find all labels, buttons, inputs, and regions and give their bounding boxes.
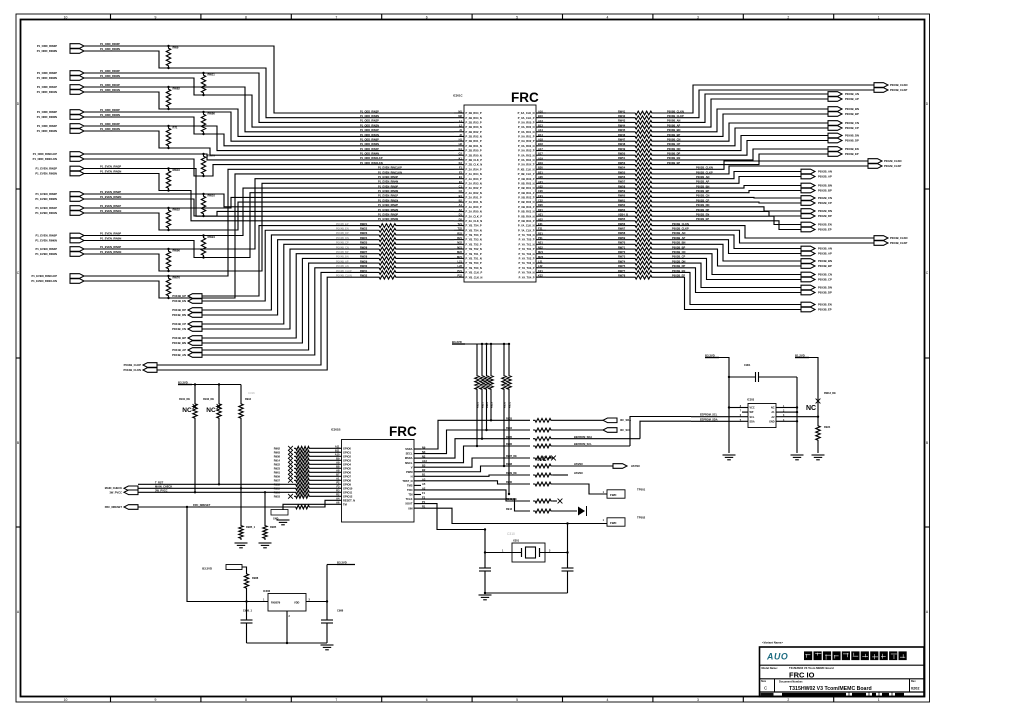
- svg-text:P_2A_RX3_P: P_2A_RX3_P: [466, 177, 482, 181]
- svg-text:<Variant Name>: <Variant Name>: [762, 641, 783, 645]
- wire: [546, 234, 633, 236]
- svg-text:P_YB_TX2_P: P_YB_TX2_P: [466, 242, 482, 246]
- wire: [421, 466, 530, 472]
- svg-text:P_YB_TX1_P: P_YB_TX1_P: [466, 252, 482, 256]
- svg-text:P0X3B_CN: P0X3B_CN: [818, 272, 832, 276]
- resistor RW75: [633, 266, 654, 270]
- resistor R916: [294, 490, 311, 494]
- resistor RW27: [377, 252, 398, 256]
- svg-text:P0X2B_EN: P0X2B_EN: [818, 222, 832, 226]
- svg-text:SDA: SDA: [750, 420, 755, 423]
- border zone row letters: [16, 102, 930, 614]
- svg-text:A8: A8: [336, 469, 340, 473]
- wire P1_ODD_RIN1P: [84, 87, 454, 132]
- svg-text:R994: R994: [245, 398, 252, 401]
- label P0X0B_DN/P0X0B_DP: [845, 133, 859, 142]
- resistor RW47: [633, 139, 654, 143]
- svg-text:F21: F21: [538, 227, 543, 231]
- wire P1_EVEN_RIN4P: [84, 179, 454, 249]
- svg-text:P_2A_RX0_N: P_2A_RX0_N: [466, 210, 482, 214]
- svg-text:P1_EVEN_RIN2N: P1_EVEN_RIN2N: [35, 197, 57, 201]
- svg-text:P_YB_TX2_N: P_YB_TX2_N: [466, 247, 482, 251]
- svg-text:P1_ODD_RIN1N: P1_ODD_RIN1N: [360, 134, 379, 137]
- svg-text:RW63: RW63: [618, 208, 626, 212]
- svg-text:10: 10: [64, 698, 68, 702]
- wire: [654, 235, 801, 249]
- svg-text:RW41: RW41: [618, 109, 626, 113]
- svg-text:D20: D20: [538, 203, 543, 207]
- svg-text:X301: X301: [513, 539, 520, 543]
- wire: [553, 484, 607, 494]
- svg-text:P0X3B_EN: P0X3B_EN: [818, 302, 832, 306]
- svg-text:P21: P21: [457, 269, 462, 273]
- svg-text:R3: R3: [336, 489, 340, 493]
- junction: [508, 343, 510, 345]
- test point TP501: [607, 490, 625, 498]
- svg-text:MAIN_CHECK: MAIN_CHECK: [105, 486, 122, 490]
- svg-text:P_YA_TX2_P: P_YA_TX2_P: [519, 256, 535, 260]
- svg-text:H: H: [411, 474, 413, 478]
- label P1_ODD_RIN0P/P1_ODD_RIN0N: [37, 110, 58, 119]
- svg-text:8: 8: [245, 698, 247, 702]
- wire: [817, 395, 819, 424]
- svg-text:P_YA_TX4_N: P_YA_TX4_N: [518, 271, 534, 275]
- junction: [503, 465, 505, 467]
- svg-text:P1_ODD_RINCLKN: P1_ODD_RINCLKN: [360, 162, 383, 165]
- junction: [326, 600, 328, 602]
- svg-text:TMS: TMS: [407, 484, 413, 488]
- resistor RW32: [377, 275, 398, 279]
- EEPROM pins: [740, 406, 785, 423]
- svg-text:P0X2B_AP: P0X2B_AP: [818, 175, 832, 179]
- svg-text:P0X3B_BP: P0X3B_BP: [818, 264, 832, 268]
- svg-text:9: 9: [155, 698, 157, 702]
- svg-text:NC: NC: [771, 407, 775, 410]
- wire: [553, 445, 630, 447]
- svg-text:P1_ODD_RIN3N: P1_ODD_RIN3N: [37, 49, 57, 53]
- svg-text:GPIO0: GPIO0: [343, 446, 351, 450]
- junction FRC_NRESET: [186, 506, 188, 508]
- wire: [546, 117, 633, 119]
- label P0X3B_BN/P0X3B_BP: [818, 259, 832, 268]
- wire: [654, 211, 801, 216]
- svg-text:R953: R953: [274, 494, 281, 498]
- svg-text:P0X2B_EP: P0X2B_EP: [818, 228, 832, 232]
- wire P1_EVEN_RIN3P: [84, 169, 454, 217]
- svg-text:P_XA_CLK_N: P_XA_CLK_N: [518, 111, 535, 115]
- port P1_ODD_RINCLKN: [70, 157, 84, 162]
- svg-text:R943: R943: [506, 508, 513, 511]
- svg-text:RW79: RW79: [208, 154, 216, 158]
- svg-text:P_YB_CLK_P: P_YB_CLK_P: [466, 271, 483, 275]
- svg-text:B2: B2: [459, 199, 463, 203]
- svg-text:P_XA_RX4_N: P_XA_RX4_N: [518, 158, 535, 162]
- test point TP502: [607, 518, 625, 526]
- svg-text:P0X3B_EP: P0X3B_EP: [818, 308, 832, 312]
- resistor R985_1: [239, 524, 243, 540]
- svg-text:1: 1: [878, 16, 880, 20]
- wire P1_ODD_RIN3P: [84, 46, 454, 113]
- svg-text:P1_EVEN_RIN4P: P1_EVEN_RIN4P: [35, 247, 57, 251]
- svg-text:P0X3B_AN: P0X3B_AN: [818, 246, 832, 250]
- wire P1_EVEN_RIN4N: [84, 183, 454, 271]
- wire P1_EVEN_RIN3N: [84, 174, 454, 221]
- svg-text:P_XB_RX1_N: P_XB_RX1_N: [518, 186, 535, 190]
- svg-text:P_XA_RX0_P: P_XA_RX0_P: [518, 120, 535, 124]
- ground: [479, 595, 492, 600]
- resistor R962: [294, 446, 311, 450]
- port P0X2B_CLKP: [868, 164, 882, 169]
- port P1_ODD_RIN1P: [70, 85, 84, 90]
- wire: [421, 475, 530, 476]
- ground: [321, 645, 334, 650]
- svg-text:P1_ODD_RINCLKP: P1_ODD_RINCLKP: [360, 157, 383, 160]
- svg-text:P_XA_RX0_N: P_XA_RX0_N: [518, 125, 535, 129]
- net label P1_EVEN_RIN0P/P1_EVEN_RIN0N on wire: [100, 232, 121, 241]
- svg-text:T_RST: T_RST: [155, 480, 164, 484]
- svg-text:HSVNC: HSVNC: [574, 462, 583, 466]
- ground: [277, 520, 290, 525]
- resistor RW26: [377, 247, 398, 251]
- wire XIN to TP502: [421, 508, 607, 523]
- resistor RW74: [633, 261, 654, 265]
- ground: [235, 543, 248, 548]
- no-connect X R953: [288, 494, 293, 499]
- svg-text:TM: TM: [343, 502, 347, 506]
- no-connect X R959: [288, 474, 293, 479]
- wire: [311, 495, 332, 497]
- svg-text:RW58: RW58: [618, 184, 626, 188]
- wire: [654, 90, 874, 118]
- svg-text:P_2A_RX3_N: P_2A_RX3_N: [466, 181, 482, 185]
- resistor R933: [533, 418, 553, 422]
- IC301B left pin stubs and names: [332, 445, 356, 507]
- svg-text:P22: P22: [457, 274, 462, 278]
- svg-text:P1_EVEN_RIN1N: P1_EVEN_RIN1N: [35, 211, 57, 215]
- svg-text:P_2A_CLK_N: P_2A_CLK_N: [466, 219, 483, 223]
- port P0X4B_DP: [188, 308, 202, 313]
- svg-text:P_XA_RX3_N: P_XA_RX3_N: [518, 153, 535, 157]
- wire: [654, 216, 801, 224]
- svg-text:RW16: RW16: [173, 168, 181, 172]
- svg-text:R962: R962: [274, 446, 281, 450]
- resistor RW41: [633, 111, 654, 115]
- wire: [546, 248, 633, 250]
- resistor R938: [533, 464, 553, 468]
- svg-text:M22: M22: [457, 250, 463, 254]
- port P0X2B_BN: [801, 183, 815, 188]
- svg-text:P1_EVEN_RIN3P: P1_EVEN_RIN3P: [35, 166, 57, 170]
- svg-text:P0X2B_CLKN: P0X2B_CLKN: [884, 159, 902, 163]
- resistor RW77: [633, 271, 654, 275]
- wire: [546, 126, 633, 128]
- svg-text:A5: A5: [422, 482, 426, 486]
- svg-text:P0X4B_DP: P0X4B_DP: [172, 308, 186, 312]
- junction RW16: [167, 167, 169, 169]
- wire: [398, 262, 454, 264]
- svg-text:P0X0B_EP: P0X0B_EP: [845, 152, 859, 156]
- wire 3W_PVCC: [138, 491, 294, 493]
- svg-text:FRC: FRC: [389, 424, 417, 439]
- label P0X0B_AN/P0X0B_AP: [845, 92, 859, 101]
- no-connect X R963: [288, 450, 293, 455]
- svg-text:P0X0B_CLKP: P0X0B_CLKP: [890, 88, 908, 92]
- junction RW79: [202, 153, 204, 155]
- svg-text:P_XB_RX1_P: P_XB_RX1_P: [518, 191, 535, 195]
- port I2C_SDA: [603, 418, 617, 423]
- svg-text:GND: GND: [769, 420, 775, 423]
- svg-text:P0X0B_DN: P0X0B_DN: [845, 133, 859, 137]
- wire: [654, 191, 801, 193]
- junction RW96: [167, 248, 169, 250]
- wire: [796, 407, 798, 453]
- junction RW86: [202, 111, 204, 113]
- wire: [311, 471, 332, 473]
- svg-text:3W_PVCC: 3W_PVCC: [155, 488, 168, 492]
- power B3.3VD regulator label: [202, 565, 242, 571]
- junction: [485, 429, 487, 431]
- svg-text:P1_EVEN_RIN4N: P1_EVEN_RIN4N: [35, 252, 57, 256]
- svg-text:7: 7: [335, 16, 337, 20]
- wire: [421, 446, 530, 463]
- svg-text:GPIO2: GPIO2: [343, 454, 351, 458]
- wire: [157, 277, 377, 370]
- svg-text:RW49: RW49: [618, 147, 626, 151]
- label MAIN_CHECK/3W_PVCC: [105, 486, 122, 494]
- svg-text:P_XB_RX2_P: P_XB_RX2_P: [518, 196, 535, 200]
- wire: [654, 149, 828, 160]
- resistor R958: [294, 454, 311, 458]
- svg-text:P2: P2: [336, 481, 340, 485]
- svg-text:P0X3B_CLKP: P0X3B_CLKP: [890, 241, 908, 245]
- svg-text:P1_ODD_RIN2P: P1_ODD_RIN2P: [37, 71, 57, 75]
- wire: [654, 207, 801, 211]
- label P0X3B_CLKN/CLKP: [890, 236, 908, 245]
- svg-text:P_2B_RX0_N: P_2B_RX0_N: [466, 153, 482, 157]
- wire: [553, 510, 577, 512]
- wire: [654, 99, 828, 127]
- resistor RW49: [633, 149, 654, 153]
- port P0X3B_CLKP: [874, 241, 888, 246]
- resistor RW73: [633, 256, 654, 260]
- svg-text:P0X3B_DP: P0X3B_DP: [818, 291, 832, 295]
- svg-text:BEFROM_SCL: BEFROM_SCL: [574, 442, 592, 446]
- port MAIN_CHECK: [124, 486, 138, 491]
- wire rail: [465, 343, 509, 345]
- no-connect X R958: [288, 454, 293, 459]
- svg-text:B20: B20: [538, 166, 543, 170]
- label P1_EVEN_RINCLKP/P1_EVEN_RINCLKN: [31, 274, 57, 283]
- wire NC/A1/A2 bus: [782, 407, 797, 409]
- svg-text:P_2A_RX2_N: P_2A_RX2_N: [466, 191, 482, 195]
- svg-text:T22: T22: [458, 227, 463, 231]
- svg-text:M2: M2: [458, 114, 462, 118]
- resistor R930: [503, 344, 505, 374]
- wire: [546, 271, 633, 273]
- svg-text:GPIO4: GPIO4: [343, 462, 351, 466]
- crystal symbol: [485, 547, 568, 558]
- resistor RW24: [377, 238, 398, 242]
- resistor RW72: [633, 252, 654, 256]
- svg-text:P1_ODD_RIN2N: P1_ODD_RIN2N: [37, 76, 57, 80]
- port P0X2B_AP: [801, 174, 815, 179]
- svg-text:R923: R923: [274, 466, 281, 470]
- svg-text:T315HW02 V3 Tcom/MEMC Board: T315HW02 V3 Tcom/MEMC Board: [789, 686, 872, 692]
- svg-text:P1_EVEN_RIN0P: P1_EVEN_RIN0P: [378, 185, 398, 188]
- svg-text:P_YB_TX3_N: P_YB_TX3_N: [466, 238, 482, 242]
- svg-text:HSYNC: HSYNC: [631, 464, 640, 468]
- resistor R924: [816, 424, 820, 442]
- svg-text:P_2B_RX2_N: P_2B_RX2_N: [466, 135, 482, 139]
- svg-text:A18: A18: [538, 138, 543, 142]
- wire: [311, 459, 332, 461]
- svg-text:R957: R957: [274, 478, 281, 482]
- svg-text:C986: C986: [337, 609, 344, 613]
- port P0X3B_BN: [801, 259, 815, 264]
- wire: [546, 262, 633, 264]
- wire: [546, 121, 633, 123]
- svg-text:VDD: VDD: [294, 601, 300, 605]
- op-amp U1 IC301C FRC main body: [464, 105, 536, 282]
- svg-text:Rev: Rev: [911, 680, 916, 683]
- svg-text:P1_ODD_RIN0N: P1_ODD_RIN0N: [360, 143, 379, 146]
- label P0X2B_CLKN/CLKP: [884, 159, 902, 168]
- svg-text:N22: N22: [538, 245, 543, 249]
- svg-text:RX9879: RX9879: [271, 601, 281, 605]
- junction RW76: [167, 275, 169, 277]
- wire: [546, 150, 633, 152]
- resistor R957: [294, 478, 311, 482]
- junction RW82: [167, 86, 169, 88]
- resistor RW69: [633, 238, 654, 242]
- svg-text:8: 8: [245, 16, 247, 20]
- net label P1_ODD_RIN0P/P1_ODD_RIN0N on wire: [100, 108, 120, 117]
- svg-text:P1_ODD_RIN0P: P1_ODD_RIN0P: [37, 110, 57, 114]
- svg-text:P_2B_RX3_P: P_2B_RX3_P: [466, 120, 482, 124]
- wire P1_ODD_RIN3N: [84, 51, 454, 118]
- no-connect X R923: [288, 466, 293, 471]
- wire: [654, 186, 801, 189]
- junction RW11: [202, 72, 204, 74]
- resistor RW9: [166, 46, 170, 68]
- label P1_ODD_RIN1P/P1_ODD_RIN1N: [37, 85, 58, 94]
- svg-text:P0X0B_CP: P0X0B_CP: [845, 126, 859, 130]
- wire: [398, 248, 454, 250]
- svg-text:R928: R928: [486, 401, 489, 408]
- wire: [654, 94, 828, 122]
- svg-text:RW50: RW50: [618, 152, 626, 156]
- wire: [202, 244, 377, 324]
- svg-text:P_2B_RX4_P: P_2B_RX4_P: [466, 111, 482, 115]
- wire P1_EVEN_RINCLKN: [84, 174, 454, 298]
- wire: [546, 154, 633, 156]
- wire: [202, 240, 377, 315]
- svg-text:R926: R926: [476, 401, 479, 408]
- svg-text:P0X3B_CP: P0X3B_CP: [818, 278, 832, 282]
- svg-text:P0X2B_CP: P0X2B_CP: [818, 201, 832, 205]
- svg-text:IC301B: IC301B: [331, 428, 340, 432]
- ground: [791, 455, 804, 460]
- resistor RW22: [377, 228, 398, 232]
- resistor RW71: [633, 247, 654, 251]
- wire: [398, 276, 454, 278]
- svg-text:P1_ODD_RIN2P: P1_ODD_RIN2P: [360, 120, 379, 123]
- svg-text:RW61: RW61: [618, 198, 626, 202]
- size cell: [774, 679, 776, 692]
- svg-text:RW74: RW74: [618, 259, 626, 263]
- svg-text:BEFROM_SDA: BEFROM_SDA: [574, 435, 592, 439]
- port P1_EVEN_RIN1N: [70, 211, 84, 216]
- wire: [654, 136, 828, 151]
- svg-text:P1_EVEN_RIN2P: P1_EVEN_RIN2P: [35, 192, 57, 196]
- svg-text:R985: R985: [270, 525, 277, 529]
- wire P1_ODD_RIN1N: [84, 92, 454, 136]
- svg-text:H1: H1: [459, 138, 463, 142]
- svg-text:P1_ODD_RIN1N: P1_ODD_RIN1N: [37, 90, 57, 94]
- svg-text:G2: G2: [459, 152, 463, 156]
- svg-text:M1: M1: [458, 109, 462, 113]
- wire: [327, 564, 337, 566]
- svg-text:P0X4B_DN: P0X4B_DN: [172, 313, 186, 317]
- port P1_EVEN_RIN3N: [70, 171, 84, 176]
- svg-text:P0X0B_CN: P0X0B_CN: [845, 121, 859, 125]
- svg-text:E21: E21: [538, 222, 543, 226]
- port P1_ODD_RIN0N: [70, 115, 84, 120]
- label P0X4B_EP/P0X4B_EN: [172, 294, 186, 303]
- wire: [546, 135, 633, 137]
- svg-text:P_2A_RX0_P: P_2A_RX0_P: [466, 205, 482, 209]
- label P0X0B_CN/P0X0B_CP: [845, 121, 859, 130]
- svg-text:MSDA: MSDA: [405, 456, 413, 460]
- label P0X3B_AN/P0X3B_AP: [818, 246, 832, 255]
- svg-text:K2: K2: [459, 161, 463, 165]
- svg-text:A20: A20: [538, 175, 543, 179]
- resistor R915: [294, 486, 311, 490]
- svg-text:P_2B_RX0_P: P_2B_RX0_P: [466, 149, 482, 153]
- svg-text:RW46: RW46: [618, 133, 626, 137]
- svg-text:RESET_N: RESET_N: [343, 498, 355, 502]
- IC301C right pin stubs and names: [518, 109, 546, 279]
- wire: [654, 172, 801, 179]
- svg-text:IC303: IC303: [747, 398, 755, 402]
- label P1_ODD_RIN2P/P1_ODD_RIN2N: [37, 71, 58, 80]
- resistor RW30: [377, 266, 398, 270]
- svg-text:IC306: IC306: [263, 589, 271, 593]
- wire: [654, 240, 801, 254]
- svg-text:R941_DE: R941_DE: [506, 498, 517, 501]
- svg-text:P_YA_TX3_N: P_YA_TX3_N: [518, 261, 534, 265]
- wire: [546, 206, 633, 208]
- resistor R941_DE: [533, 499, 553, 503]
- wire: [546, 131, 633, 133]
- svg-text:P1_ODD_RIN4P: P1_ODD_RIN4P: [37, 124, 57, 128]
- svg-text:C22: C22: [538, 199, 543, 203]
- svg-text:P1_EVEN_RIN1P: P1_EVEN_RIN1P: [378, 195, 398, 198]
- no-connect X R957: [288, 478, 293, 483]
- wire: [421, 490, 530, 501]
- wire: [421, 420, 530, 449]
- svg-text:P_XB_RX3_P: P_XB_RX3_P: [518, 205, 535, 209]
- svg-text:P21: P21: [538, 236, 543, 240]
- resistor RW31: [377, 271, 398, 275]
- svg-text:R930: R930: [503, 401, 506, 408]
- resistor RW86: [201, 112, 205, 134]
- svg-text:P0X4B_EP: P0X4B_EP: [172, 294, 186, 298]
- svg-text:P0X4B_BP: P0X4B_BP: [172, 336, 186, 340]
- wire: [246, 590, 248, 602]
- svg-text:RW94: RW94: [208, 235, 216, 239]
- wire FRC_NRESET: [138, 506, 294, 508]
